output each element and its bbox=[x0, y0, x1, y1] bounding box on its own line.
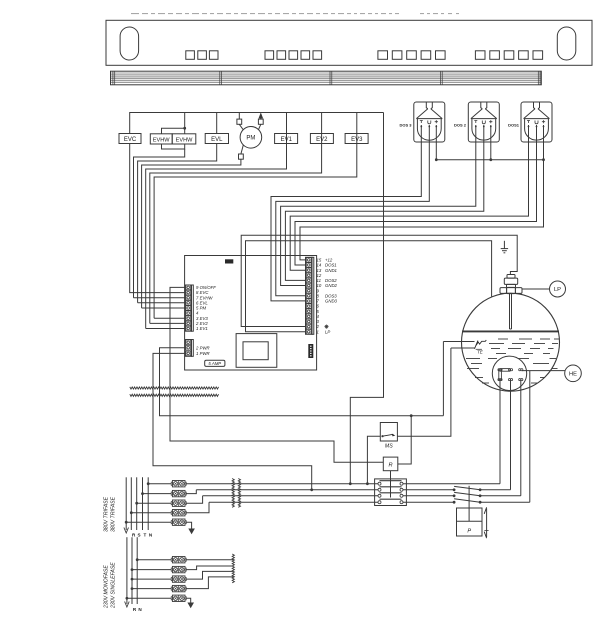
svg-text:LP: LP bbox=[325, 329, 330, 334]
panel button group 3 bbox=[378, 51, 445, 60]
label 230V MONOFASE bbox=[104, 565, 110, 609]
svg-text:5 AMP: 5 AMP bbox=[208, 361, 221, 366]
wire: switch to HE2 bbox=[480, 495, 521, 497]
terminal block TB2 (380V) bbox=[172, 490, 185, 496]
wire: 230V TB5 earth bbox=[186, 598, 191, 602]
wire: mains phase T bbox=[209, 501, 378, 503]
terminal block TB9 (230V) bbox=[172, 585, 185, 591]
svg-text:1 EV1: 1 EV1 bbox=[196, 326, 208, 331]
panel button group 2 bbox=[265, 51, 322, 60]
wire: EVHW feed down bbox=[134, 149, 185, 298]
wire: pin 2 to level probe bbox=[241, 235, 517, 326]
dosing pump DOS 3 bbox=[399, 102, 444, 142]
wire bbox=[137, 502, 172, 504]
wire: 230V TB1 out bbox=[186, 559, 233, 561]
wire bbox=[148, 483, 171, 485]
label HE bbox=[522, 370, 565, 372]
panel button group 4 bbox=[475, 51, 542, 60]
node bbox=[135, 502, 138, 505]
earth arrow TB5 bbox=[188, 529, 195, 535]
label 380V TRIFASE bbox=[104, 496, 110, 532]
wire: EVC feed down bbox=[130, 144, 185, 293]
tank vessel bbox=[462, 293, 560, 391]
230V supply lines bbox=[127, 537, 137, 604]
terminal block TB8 (230V) bbox=[172, 576, 185, 582]
svg-text:GND1: GND1 bbox=[325, 268, 338, 273]
cable crossing marks (380V) bbox=[232, 479, 234, 508]
svg-text:EV3: EV3 bbox=[351, 137, 363, 143]
wire: +12 bus linking DOS pumps bbox=[436, 142, 543, 160]
pin 2 lamp symbol bbox=[324, 324, 328, 328]
node bbox=[141, 492, 144, 495]
wire: EV3 feed down bbox=[154, 144, 357, 319]
wire: TB5 earth bbox=[186, 522, 191, 528]
title text (tiny unreadable print) bbox=[131, 13, 459, 14]
node bbox=[130, 511, 133, 514]
solenoid EV2 bbox=[321, 134, 323, 144]
wire bbox=[150, 322, 185, 324]
node bbox=[147, 482, 150, 485]
svg-text:EVHW: EVHW bbox=[153, 138, 171, 144]
svg-text:EV1: EV1 bbox=[281, 137, 293, 143]
node: MS branch on phase wire bbox=[366, 482, 369, 485]
svg-text:P: P bbox=[467, 529, 471, 535]
connector J1 (9-pin) bbox=[185, 285, 193, 331]
pump contactor P bbox=[457, 508, 483, 536]
dip header bbox=[308, 344, 313, 358]
svg-text:T: T bbox=[143, 533, 146, 538]
wire: bus drop to EVL bbox=[216, 113, 218, 134]
wire: switch to HE3 bbox=[480, 501, 530, 503]
svg-text:1 PWR: 1 PWR bbox=[196, 351, 210, 356]
wire: EV1 feed down bbox=[146, 144, 287, 329]
svg-text:230V SINGLEFASE: 230V SINGLEFASE bbox=[111, 562, 117, 609]
wire bbox=[143, 493, 172, 495]
wire bbox=[127, 597, 171, 599]
wire: HE phase 1 down bbox=[510, 381, 512, 490]
earth arrow 230V TB5 bbox=[187, 603, 194, 609]
liquid level line bbox=[462, 330, 559, 332]
wire: DOS2 mid pin to pin 11 bbox=[285, 142, 483, 280]
panel left slot hole bbox=[120, 27, 139, 60]
wire: DOS3 left pin to pin 7 bbox=[271, 142, 421, 301]
wire bbox=[132, 578, 171, 580]
svg-text:DOS1: DOS1 bbox=[508, 123, 520, 128]
node: DOS3 +12 bbox=[435, 158, 438, 161]
node: R coil branch bbox=[410, 414, 413, 417]
wire: EVL feed down bbox=[138, 144, 217, 303]
wire bbox=[132, 588, 171, 590]
node bbox=[131, 587, 134, 590]
terminal block TB1 (380V) bbox=[172, 481, 185, 487]
smd component bbox=[225, 259, 233, 263]
svg-text:LP: LP bbox=[554, 287, 561, 293]
wire: PM feed down bbox=[142, 159, 241, 308]
wire: DOS2 + pin drop bbox=[490, 142, 492, 160]
wire bbox=[137, 559, 171, 561]
level probe LP fitting bbox=[500, 275, 522, 294]
panel button group 1 bbox=[186, 51, 218, 60]
wire bbox=[142, 307, 185, 309]
J1 pin labels bbox=[195, 285, 216, 331]
230V line letters bbox=[133, 607, 142, 612]
wire: HE phase 2 down bbox=[520, 381, 522, 496]
node: PWR1 on phase wire bbox=[310, 488, 313, 491]
wire bbox=[134, 297, 186, 299]
wire: +12 to pin 15 bbox=[300, 160, 544, 260]
svg-text:380V TRIFASE: 380V TRIFASE bbox=[104, 496, 110, 532]
svg-text:DOS 2: DOS 2 bbox=[454, 123, 467, 128]
connector J2 (PWR) bbox=[185, 340, 193, 357]
wire: 230V TB3 step bbox=[186, 571, 233, 579]
svg-text:EVHW: EVHW bbox=[176, 138, 194, 144]
dosing pump DOS 2 bbox=[454, 102, 499, 142]
terminal block TB10 (230V) bbox=[172, 595, 185, 601]
wire bbox=[146, 328, 185, 330]
svg-text:PM: PM bbox=[246, 136, 255, 142]
terminal block TB4 (380V) bbox=[172, 510, 185, 516]
wire: TE upper lead bbox=[442, 342, 444, 416]
wire: bus return drop to mains bbox=[350, 113, 383, 484]
wire: EVHW upper bracket bbox=[162, 128, 185, 134]
solenoid EVHW (left) bbox=[150, 134, 172, 144]
wire: TB3 step bbox=[186, 496, 202, 503]
wire bbox=[132, 569, 171, 571]
svg-text:DOS 3: DOS 3 bbox=[399, 123, 412, 128]
pump motor PM bbox=[237, 112, 263, 159]
relay R bbox=[383, 457, 398, 471]
wire: TB2 step bbox=[186, 490, 196, 494]
node: DOS2 +12 bbox=[489, 158, 492, 161]
control panel faceplate bbox=[106, 20, 592, 65]
contactor K1 bbox=[375, 479, 407, 506]
cable crossing mark (230V) bbox=[232, 554, 234, 583]
wire: bus drop to PM terminal bbox=[238, 113, 240, 120]
probe rod bbox=[509, 294, 511, 329]
wire: mains N (top) bbox=[186, 483, 378, 485]
ground symbol (probe shield) bbox=[501, 241, 508, 253]
wire bbox=[131, 512, 171, 514]
node bbox=[131, 578, 134, 581]
wire: top supply bus bbox=[130, 113, 384, 134]
wire: DOS1 left pin to pin 13 bbox=[290, 142, 528, 270]
terminal block TB7 (230V) bbox=[172, 566, 185, 572]
wire: R coil to contactor actuator bbox=[390, 471, 392, 498]
svg-text:R: R bbox=[388, 463, 392, 469]
node: EVHW bracket junction bbox=[183, 127, 186, 130]
wire: DOS1 mid pin to pin 14 bbox=[295, 142, 537, 265]
svg-text:230V MONOFASE: 230V MONOFASE bbox=[104, 565, 110, 609]
wire: 230V TB2 step bbox=[186, 566, 233, 570]
380V earth arrow bbox=[124, 528, 129, 534]
svg-text:GND2: GND2 bbox=[325, 283, 338, 288]
svg-text:HE: HE bbox=[569, 372, 577, 378]
node: bus return on phase wire bbox=[349, 482, 352, 485]
node bbox=[136, 558, 139, 561]
wire: TE lower lead to MS bbox=[397, 348, 451, 436]
svg-text:EVC: EVC bbox=[124, 137, 137, 143]
wire bbox=[126, 521, 171, 523]
svg-text:EV2: EV2 bbox=[316, 137, 328, 143]
wire bbox=[154, 317, 185, 319]
connector J3 (15-pin) bbox=[306, 257, 314, 334]
wire: ON/OFF from pin 9 bbox=[170, 287, 383, 462]
wire: mains phase S bbox=[203, 495, 378, 497]
wire: TB4 step bbox=[186, 502, 209, 513]
control board U1 bbox=[185, 256, 317, 371]
wire: bus drop to EV2 bbox=[321, 113, 323, 134]
svg-text:EVL: EVL bbox=[211, 137, 223, 143]
temperature sensor TE bbox=[443, 340, 486, 354]
terminal block TB3 (380V) bbox=[172, 500, 185, 506]
J2 pin labels bbox=[195, 345, 210, 356]
wire: bus drop to EVHW bracket bbox=[184, 113, 186, 129]
dosing pump DOS1 bbox=[508, 102, 552, 142]
wire: DOS2 left pin to pin 10 bbox=[281, 142, 476, 286]
cable crossing marks (board feed) bbox=[130, 387, 219, 389]
node bbox=[126, 597, 129, 600]
wire: mains phase R bbox=[196, 489, 378, 491]
svg-text:2 PWR: 2 PWR bbox=[195, 345, 210, 350]
svg-text:S: S bbox=[138, 533, 141, 538]
3-pole switch SW1 bbox=[453, 486, 482, 508]
node: DOS1 +12 bbox=[542, 158, 545, 161]
svg-text:380V TRIFASE: 380V TRIFASE bbox=[111, 496, 117, 532]
fuse 5 AMP bbox=[205, 360, 225, 366]
heating element HE bbox=[492, 356, 526, 390]
J3 pin labels bbox=[316, 258, 338, 335]
wire: EV2 feed down bbox=[150, 144, 322, 324]
solenoid EVHW (right) bbox=[172, 134, 196, 144]
wire: HE phase 3 down bbox=[529, 371, 531, 503]
transformer T1 bbox=[236, 334, 277, 368]
380V line letters bbox=[132, 533, 153, 538]
wire: branch down to R right bbox=[398, 416, 411, 464]
panel right slot hole bbox=[557, 27, 576, 60]
solenoid EVC bbox=[119, 134, 141, 144]
wire: HE neutral down bbox=[499, 381, 501, 484]
terminal block TB5 (380V) bbox=[172, 519, 185, 525]
svg-text:GND3: GND3 bbox=[325, 299, 338, 304]
solenoid EVL bbox=[205, 134, 228, 144]
svg-text:TE: TE bbox=[477, 350, 484, 355]
microswitch MS bbox=[380, 423, 397, 442]
wire: EVHW lower bracket bbox=[162, 144, 185, 149]
380V supply lines bbox=[126, 477, 148, 530]
wire: pin 1 to tank shell bbox=[246, 241, 492, 332]
node bbox=[125, 521, 128, 524]
solenoid EV3 bbox=[356, 134, 358, 144]
terminal strip bar (hatched) bbox=[111, 71, 542, 85]
wire: switch to HE1 bbox=[480, 489, 510, 491]
wire: PWR pin 1 to phase bbox=[153, 353, 312, 489]
wire: bus drop to EV3 bbox=[356, 113, 358, 134]
wire: bus drop to EV1 bbox=[286, 113, 288, 134]
wire: 230V TB4 step bbox=[186, 577, 233, 589]
wire bbox=[138, 302, 185, 304]
solenoid EV1 bbox=[286, 134, 288, 144]
terminal block TB6 (230V) bbox=[172, 557, 185, 563]
liquid dashes bbox=[466, 339, 559, 383]
230V earth arrow bbox=[125, 602, 130, 608]
wire: MS left branch to phase bbox=[367, 436, 380, 484]
wire: DOS3 mid pin to pin 8 bbox=[276, 142, 430, 296]
flexible link arrows bbox=[484, 507, 488, 538]
svg-text:MS: MS bbox=[385, 444, 393, 450]
MS switch blade bbox=[381, 435, 383, 437]
wire: PWR pin 2 to R coil / TE bbox=[160, 348, 444, 416]
node bbox=[131, 568, 134, 571]
label LP bbox=[522, 288, 550, 290]
